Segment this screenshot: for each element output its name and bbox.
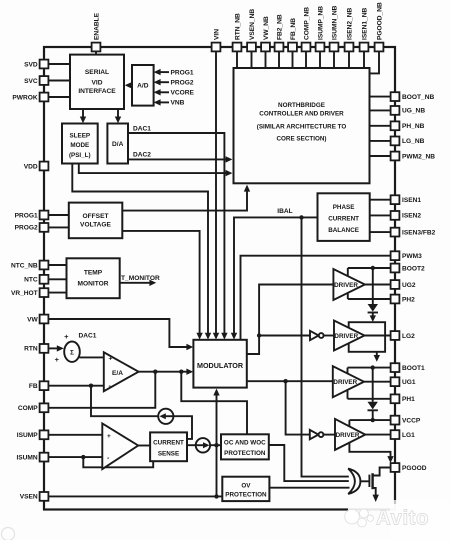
pin PH2 [391,295,400,304]
wire UG2 from driver output [365,284,390,286]
svg-text:VW_NB: VW_NB [263,16,270,40]
svg-text:OFFSET: OFFSET [82,213,108,220]
wire DAC1 net from D/A to Modulator [128,133,228,340]
wire driver U5 frame and arrow to PGOOD [349,420,393,463]
pin PH1 [391,394,400,403]
label PROG1 A/D input [171,69,194,76]
wire driver U4 left rail [347,368,349,399]
wire Offset Voltage to Northbridge bottom [122,185,250,211]
svg-text:UG_NB: UG_NB [402,108,425,115]
svg-text:A/D: A/D [137,83,149,90]
svg-text:NTC_NB: NTC_NB [11,262,38,269]
svg-text:PGOOD: PGOOD [402,465,427,472]
block Phase Current Balance U17 [318,193,370,241]
svg-text:VSEN_NB: VSEN_NB [249,9,256,40]
svg-text:+: + [55,355,60,364]
transistor Q1 PGOOD open-drain [369,468,390,503]
svg-text:ISEN2_NB: ISEN2_NB [346,8,353,40]
wire Phase Balance to ISEN2 [370,214,391,216]
svg-text:BOOT1: BOOT1 [402,365,425,372]
wire DAC2 net from D/A to Northbridge [128,156,232,162]
svg-text:VOLTAGE: VOLTAGE [80,222,111,229]
pin ISEN1 [391,195,400,204]
driver U6 LG2 DRIVER triangle [334,321,365,351]
label T_MONITOR net [121,275,160,282]
pin ISUMP [40,430,49,439]
svg-text:ISEN2: ISEN2 [402,213,421,220]
svg-text:ISUMN_NB: ISUMN_NB [331,5,338,40]
pin PROG2 [40,223,49,232]
pin ISUMN_NB [330,43,339,52]
wire ISEN1_NB stub [363,52,365,68]
block OV Protection U21 [222,477,269,501]
pin NTC [40,275,49,284]
svg-text:OC AND WOC: OC AND WOC [224,440,266,447]
svg-text:DAC1: DAC1 [79,333,97,340]
pin VW_NB [261,43,270,52]
wire VSEN/ISUM vertical to Modulator bottom [213,389,219,497]
wire Sleep Mode output 2 to Modulator [72,163,211,340]
label VNB A/D input [171,100,185,107]
svg-text:COMP: COMP [18,405,38,412]
pin VSEN_NB [247,43,256,52]
pin BOOT1 [391,363,400,372]
block Offset Voltage U15 [69,203,123,239]
pin PROG1 [40,211,49,220]
svg-text:VW: VW [27,316,38,323]
diode D2 bootstrap BOOT1 to VCCP [368,368,378,421]
block A/D converter U11 [132,65,154,106]
svg-text:E/A: E/A [112,370,123,377]
svg-text:UG1: UG1 [402,379,416,386]
pin SVD [40,60,49,69]
driver U2 phase-2 upper DRIVER triangle [333,269,365,300]
svg-text:LG2: LG2 [402,333,415,340]
wire VCCP rail [349,419,390,421]
wire Northbridge to LG_NB [370,140,391,142]
pin PWM2_NB [391,152,400,161]
svg-text:PROG1: PROG1 [171,69,194,76]
op-amp E/A U1 error amplifier [104,352,139,391]
wire OV protection output to OR gate [269,487,349,489]
wire FB_NB stub [292,52,294,68]
wire SVC to Serial VID [49,80,70,82]
pin UG1 [391,377,400,386]
pin PGOOD [391,463,400,472]
wire Offset Voltage to Modulator [122,231,203,340]
OR gate G1 fault gate [348,469,360,494]
svg-text:Σ: Σ [70,349,74,356]
wire LG2 from driver output [365,335,391,337]
wire VSEN to OV protection [49,495,223,497]
summing node S1 with sigma [55,332,80,364]
wire COMP_NB stub [305,52,307,68]
svg-text:ISEN1: ISEN1 [402,197,421,204]
svg-text:CURRENT: CURRENT [328,216,359,223]
driver U4 phase-1 upper DRIVER triangle [333,366,364,397]
svg-text:ISEN1_NB: ISEN1_NB [361,8,368,40]
pin ISEN1_NB [360,43,369,52]
pin RTN_NB [233,43,242,52]
svg-text:PH2: PH2 [402,296,415,303]
driver U6 LG2 box [349,322,385,362]
svg-text:PH_NB: PH_NB [402,123,425,130]
svg-text:Avito: Avito [376,507,429,530]
diode D1 bootstrap BOOT2 [368,268,378,322]
svg-text:BALANCE: BALANCE [328,227,359,234]
pin ISEN2_NB [345,43,354,52]
svg-text:CURRENT: CURRENT [153,439,184,446]
svg-text:INTERFACE: INTERFACE [78,88,116,95]
pin ISEN3/FB2 [391,228,400,237]
wire ISUMP_NB stub [319,52,321,68]
wire PWM1 net Modulator to phase-1 driver [247,380,333,382]
pin LG_NB [391,137,400,146]
pin LG2 [391,331,400,340]
wire Northbridge to PWM2_NB [370,155,391,157]
wire RTN_NB stub [236,52,238,68]
wire Northbridge to BOOT_NB [370,96,391,98]
wire IBAL branch down to OR gate [302,217,349,476]
svg-text:NTC: NTC [24,277,38,284]
svg-text:VSEN: VSEN [20,494,38,501]
svg-text:ISUMN: ISUMN [16,454,37,461]
wire Sleep Mode output 1 to Northbridge [79,163,233,177]
svg-text:PROTECTION: PROTECTION [224,450,266,457]
wire PWROK to Serial VID [49,96,70,98]
wire VNB input to A/D [154,99,169,105]
pin VIN [212,43,221,52]
wire current sense amp output to Current Sense box [138,445,150,447]
svg-text:RTN: RTN [24,346,38,353]
current source CS1 droop circle [158,409,173,424]
wire FB to E/A inverting input [49,385,104,387]
op-amp U3 current sense amplifier [102,424,138,470]
right pin labels [402,94,436,472]
svg-text:SVC: SVC [24,78,38,85]
pin VDD [40,162,49,171]
block Current Sense U19 [150,432,187,461]
wire Northbridge to UG_NB [370,109,391,111]
pin BOOT_NB [391,92,400,101]
wire Northbridge to PH_NB [370,125,391,127]
wire ISUMN to current sense amp [49,456,103,458]
wire VW_NB stub [265,52,267,68]
pin ISUMN [40,453,49,462]
wire PH1 [348,398,391,400]
wire VCORE input to A/D [154,89,169,95]
svg-text:DRIVER: DRIVER [333,379,357,386]
svg-text:ENABLE: ENABLE [93,12,100,40]
svg-text:VIN: VIN [213,29,220,40]
wire COMP up to E/A output [49,372,156,408]
wire Serial VID to D/A arrow [115,109,121,123]
pin VSEN [40,492,49,501]
inverter U8 before LG1 driver [310,430,335,439]
pin PWM3 [391,251,400,260]
svg-text:SERIAL: SERIAL [85,69,109,76]
block D/A converter U13 [107,124,128,164]
svg-text:VCORE: VCORE [171,90,195,97]
pin FB [40,381,49,390]
svg-text:PH1: PH1 [402,396,415,403]
svg-text:(SIMILAR ARCHITECTURE TO: (SIMILAR ARCHITECTURE TO [257,124,347,131]
pin VW [40,315,49,324]
svg-text:CONTROLLER AND DRIVER: CONTROLLER AND DRIVER [259,111,344,118]
pin COMP [40,403,49,412]
svg-text:VDD: VDD [24,163,38,170]
pin ISUMP_NB [316,43,325,52]
label IBAL net [277,208,292,215]
wire PH2 [348,298,391,300]
pin BOOT2 [391,264,400,273]
svg-text:LG_NB: LG_NB [402,138,425,145]
wire ENABLE stub to Serial VID [95,52,97,55]
wire OR gate output to Q1 gate [359,480,370,482]
wire VW to Modulator [49,319,193,350]
label VCORE A/D input [171,90,195,97]
svg-text:+: + [64,332,69,341]
block Sleep Mode (PSI_L) U12 [62,124,98,164]
label DAC2 net [133,152,151,159]
svg-text:TEMP: TEMP [84,270,103,277]
svg-text:D/A: D/A [112,141,124,148]
pin PGOOD_NB [375,43,384,52]
chip outline border [44,47,395,510]
svg-text:PROG2: PROG2 [171,80,194,87]
svg-text:SENSE: SENSE [158,451,179,458]
wire ISUMP to current sense amp [49,434,103,436]
wire PGOOD_NB to Northbridge right edge [370,52,380,74]
svg-text:NORTHBRIDGE: NORTHBRIDGE [278,102,325,109]
driver U5 LG1 DRIVER triangle [335,419,365,450]
label PROG2 A/D input [171,80,194,87]
block Northbridge Controller and Driver U14 [234,68,370,183]
svg-text:COMP_NB: COMP_NB [303,7,310,40]
svg-text:ISEN3/FB2: ISEN3/FB2 [402,229,436,236]
wire ISUMN_NB stub [333,52,335,68]
pin VCCP [391,416,400,425]
wire Serial VID to Sleep Mode arrow [80,109,86,123]
pin NTC_NB [40,261,49,270]
wire PROG1 input to A/D [154,69,169,75]
svg-text:PWROK: PWROK [12,94,38,101]
pin RTN [40,344,49,353]
wire VSEN_NB stub [251,52,253,68]
wire E/A output to Modulator [139,369,194,375]
svg-text:VID: VID [92,80,103,87]
svg-text:DAC2: DAC2 [133,152,151,159]
svg-text:FB: FB [29,383,38,390]
left pin labels [11,61,39,500]
wire FB2_NB stub [278,52,280,68]
pin VR_HOT [40,288,49,297]
wire BOOT2 [348,267,391,269]
svg-text:T_MONITOR: T_MONITOR [121,275,160,282]
svg-text:FB2_NB: FB2_NB [276,14,283,40]
svg-text:CORE SECTION): CORE SECTION) [276,135,326,142]
wire E/A output branch to OC protection top [181,372,247,435]
pin FB_NB [288,43,297,52]
wire Phase Balance to ISEN3/FB2 [370,231,391,233]
wire PWM2 branch to LG2 inverter [259,335,310,337]
block OC and WOC Protection U20 [221,434,269,459]
pin UG_NB [391,106,400,115]
svg-text:DRIVER: DRIVER [334,333,358,340]
label DAC1 net [133,126,151,133]
svg-text:VCCP: VCCP [402,417,421,424]
svg-text:DRIVER: DRIVER [334,282,358,289]
svg-text:BOOT2: BOOT2 [402,265,425,272]
svg-text:BOOT_NB: BOOT_NB [402,94,434,101]
svg-text:VNB: VNB [171,100,185,107]
wire RTN arrow into summing node [49,345,64,351]
current source CS2 output circle [196,438,210,452]
pin ISEN2 [391,211,400,220]
wire PROG2 to Offset Voltage [49,226,69,228]
pin PH_NB [391,121,400,130]
wire LG1 from driver output [365,434,390,436]
svg-text:PROTECTION: PROTECTION [225,492,267,499]
pin ENABLE [92,43,101,52]
svg-text:SVD: SVD [24,61,38,68]
wire PWM3 from Modulator to pin [241,256,391,340]
wire NTC_NB to Temp Monitor [49,264,67,266]
block Temp Monitor U16 [67,258,120,298]
wire VR_HOT to Temp Monitor [49,292,67,294]
wire T_MONITOR output arrow [120,280,157,286]
svg-text:MODULATOR: MODULATOR [197,361,244,370]
svg-text:PROG2: PROG2 [15,225,38,232]
wire ISEN2_NB stub [348,52,350,68]
svg-text:RTN_NB: RTN_NB [234,13,241,40]
wire Phase Balance to ISEN1 [370,199,391,201]
pin COMP_NB [302,43,311,52]
svg-text:PWM3: PWM3 [402,253,422,260]
svg-text:(PSI_L): (PSI_L) [69,152,91,159]
watermark tile fragment bottom-left [2,528,15,540]
svg-text:OV: OV [241,483,251,490]
wire NTC to Temp Monitor [49,278,67,280]
wire OC protection output to OR gate [269,445,349,481]
pin LG1 [391,430,400,439]
svg-text:UG2: UG2 [402,282,416,289]
svg-text:PGOOD_NB: PGOOD_NB [376,2,383,40]
svg-text:MODE: MODE [70,142,89,149]
svg-text:DRIVER: DRIVER [336,432,360,439]
wire SVD to Serial VID [49,63,70,65]
svg-text:SLEEP: SLEEP [69,133,90,140]
block Modulator U18 [193,340,246,388]
wire IBAL net from Phase Balance to Modulator [231,217,318,339]
wire PWM2 net Modulator to phase-2 driver [247,285,334,355]
wire PROG2 input to A/D [154,79,169,85]
wire A/D to Serial VID with arrow [125,82,132,88]
block Serial VID Interface U10 [70,55,124,109]
label DAC1 at summing node [79,333,97,340]
pin SVC [40,76,49,85]
watermark Avito [345,500,451,540]
wire Current Sense output to OC protection [187,444,221,446]
wire PWM1 branch to LG1 inverter [286,381,310,434]
svg-text:PHASE: PHASE [333,204,355,211]
wire ISUMN feedback loop to Current Sense bottom [83,457,153,467]
wire VIN to Modulator [213,52,219,340]
pin UG2 [391,280,400,289]
svg-text:LG1: LG1 [402,432,415,439]
top pin labels rotated [93,2,383,40]
pin PWROK [40,93,49,102]
svg-text:IBAL: IBAL [277,208,292,215]
svg-text:ISUMP_NB: ISUMP_NB [317,6,324,40]
wire BOOT1 [348,367,391,369]
wire driver U2 left rail [347,268,349,299]
svg-text:+: + [107,433,111,440]
svg-text:PWM2_NB: PWM2_NB [402,153,435,160]
wire PROG1 to Offset Voltage [49,214,69,216]
wire droop current path FB to Current Sense [91,386,192,439]
svg-text:VR_HOT: VR_HOT [11,290,38,297]
svg-text:PROG1: PROG1 [15,212,38,219]
svg-text:ISUMP: ISUMP [17,432,38,439]
svg-text:DAC1: DAC1 [133,126,151,133]
svg-text:MONITOR: MONITOR [77,281,108,288]
svg-text:+: + [109,355,113,362]
wire summing node to E/A non-inverting input [80,356,104,358]
pin FB2_NB [275,43,284,52]
svg-text:FB_NB: FB_NB [290,18,297,40]
inverter U7 before LG2 driver [310,331,334,340]
wire UG1 from driver output [364,381,390,383]
